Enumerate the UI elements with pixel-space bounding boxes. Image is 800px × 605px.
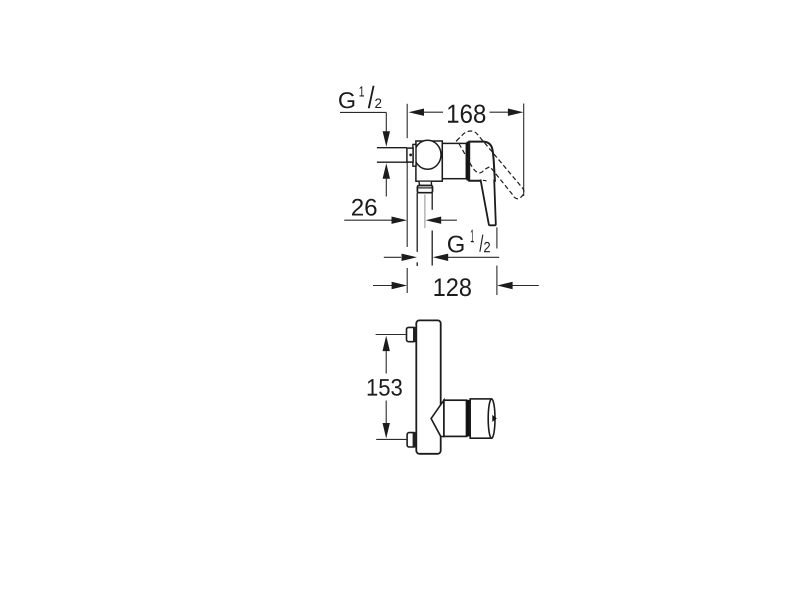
handle hub block bbox=[469, 142, 495, 181]
arrowhead hose G 1/2 right bbox=[433, 254, 449, 261]
label G 1/2 (shower outlet) bbox=[448, 230, 490, 253]
nut dot bbox=[409, 154, 412, 157]
top wall fitting bbox=[407, 327, 416, 341]
inlet pipe (top view, wall supply) bbox=[377, 148, 407, 163]
arrow down to pipe top bbox=[383, 131, 390, 147]
cylinder end cap bbox=[488, 399, 495, 438]
arrowhead 168 left bbox=[409, 109, 425, 116]
arrow up to pipe bottom bbox=[383, 163, 390, 179]
arrowhead 26 right bbox=[426, 217, 442, 224]
dome circle bbox=[414, 140, 441, 169]
dimension 153 extension lines bbox=[376, 335, 407, 440]
collar (front view) bbox=[444, 400, 467, 436]
junction ring (thick bar, top view) bbox=[467, 142, 470, 181]
arrowhead 26 left bbox=[392, 217, 408, 224]
arrowhead 153 up bbox=[383, 336, 390, 352]
text 128 bbox=[435, 278, 471, 296]
lever tip seen end-on bbox=[492, 415, 497, 422]
outlet stub bbox=[419, 182, 432, 186]
leader line for G 1/2 inlet bbox=[340, 112, 386, 196]
wall-plane extension line bbox=[406, 104, 408, 293]
dimension 168 bbox=[423, 104, 524, 197]
inlet flange bbox=[413, 144, 416, 166]
arrowhead 153 down bbox=[383, 423, 390, 439]
extension line to lever tip (128) bbox=[496, 227, 498, 295]
arrowhead 128 right bbox=[497, 282, 512, 289]
lever handle (solid position) bbox=[481, 179, 496, 225]
cone transition bbox=[431, 400, 444, 436]
inlet nut bbox=[407, 148, 413, 162]
hose center line (gray) bbox=[424, 195, 426, 229]
dimension 26 bbox=[352, 199, 377, 216]
mixer body (front view) bbox=[416, 320, 440, 453]
bottom wall fitting bbox=[407, 433, 416, 447]
dimension 153 bbox=[385, 351, 387, 424]
text 153 bbox=[368, 379, 402, 396]
junction ring (thick bar, front view) bbox=[466, 400, 470, 437]
cartridge cylinder bbox=[470, 399, 491, 438]
dash fragment at lever base bbox=[483, 179, 487, 182]
dashed handle (alternate position) bbox=[457, 131, 525, 199]
body middle section bbox=[442, 143, 466, 178]
arrowhead 168 right bbox=[508, 109, 524, 116]
arrowhead 128 left bbox=[392, 282, 408, 289]
arrowhead hose G 1/2 left bbox=[402, 254, 418, 261]
body section 1 (cap housing) bbox=[416, 141, 442, 181]
shower hose connection lines bbox=[417, 193, 432, 266]
dimension line G 1/2 row bbox=[384, 256, 499, 258]
text 168 bbox=[448, 105, 485, 124]
outlet collar nut bbox=[417, 186, 432, 193]
label G 1/2 (inlet) bbox=[339, 86, 381, 109]
